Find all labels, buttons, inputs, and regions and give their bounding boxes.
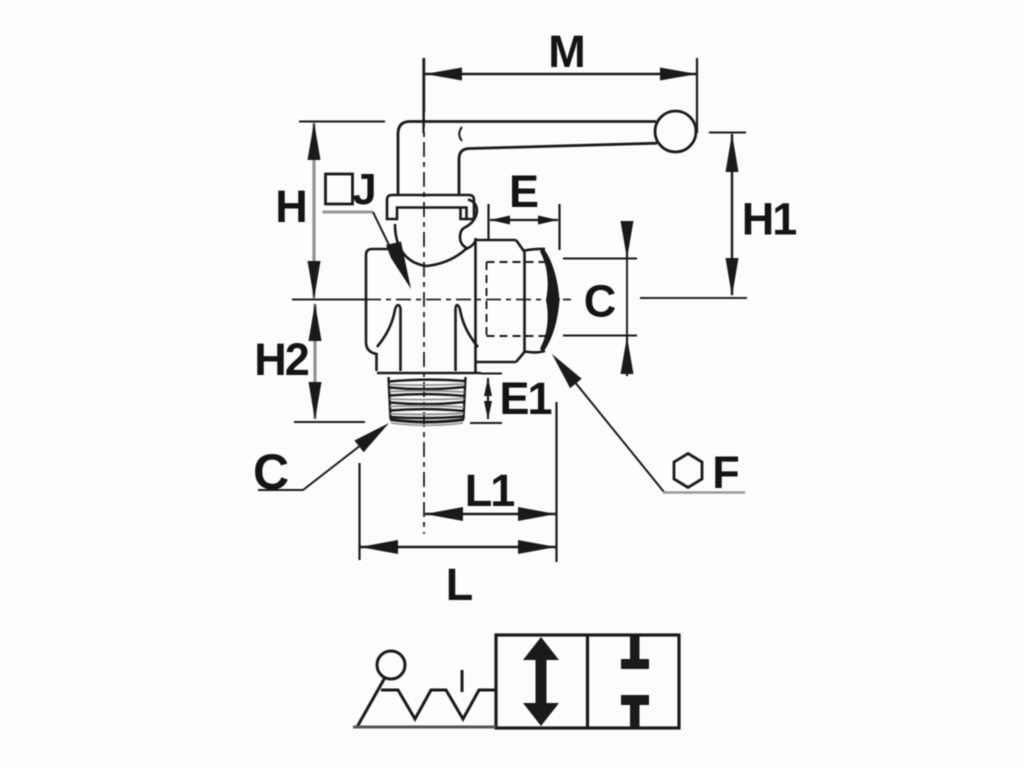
svg-text:F: F bbox=[712, 447, 740, 498]
svg-text:L: L bbox=[446, 559, 474, 610]
svg-text:E1: E1 bbox=[499, 373, 551, 424]
svg-text:C: C bbox=[584, 276, 617, 327]
svg-text:H: H bbox=[275, 181, 308, 232]
svg-text:J: J bbox=[352, 165, 376, 214]
svg-text:H2: H2 bbox=[254, 334, 308, 385]
svg-text:L1: L1 bbox=[465, 465, 514, 516]
svg-text:C: C bbox=[253, 444, 289, 500]
svg-text:M: M bbox=[548, 26, 586, 77]
svg-text:H1: H1 bbox=[742, 194, 796, 245]
svg-text:E: E bbox=[509, 166, 539, 217]
